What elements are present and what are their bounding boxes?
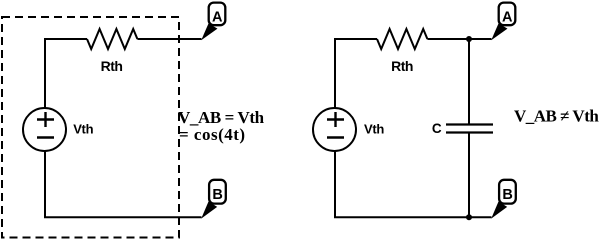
- wire (right circuit, left vertical top): [334, 39, 336, 109]
- svg-text:B: B: [502, 187, 512, 203]
- terminal B (left) wedge: [201, 202, 217, 219]
- resistor Rth (right): [377, 29, 427, 49]
- terminal A (right) wedge: [491, 24, 507, 41]
- terminal A (right) box: [499, 3, 516, 26]
- wire (right circuit, left vertical bottom): [334, 151, 336, 217]
- wire (left circuit, bottom horizontal): [44, 216, 202, 218]
- svg-text:= cos(4t): = cos(4t): [179, 125, 246, 144]
- terminal A (left) box: [209, 3, 226, 26]
- capacitor C: [446, 125, 493, 133]
- node (top junction dot): [466, 36, 472, 42]
- terminal B (right) box: [499, 180, 516, 204]
- voltage source Vth (left): [23, 108, 66, 151]
- terminal A (left) wedge: [201, 24, 217, 41]
- wire (left circuit, top horizontal to resistor): [44, 38, 87, 40]
- resistor Rth (left): [87, 29, 137, 49]
- wire (right circuit, bottom horizontal): [334, 216, 492, 218]
- wire (left circuit, left vertical bottom): [44, 151, 46, 217]
- node (bottom junction dot): [466, 214, 472, 220]
- svg-text:C: C: [432, 121, 442, 136]
- svg-text:B: B: [212, 187, 222, 203]
- wire (right circuit, top horizontal junction to terminal A): [427, 38, 491, 40]
- terminal B (right) wedge: [491, 202, 507, 219]
- wire (left circuit, left vertical top): [44, 39, 46, 109]
- svg-text:Vth: Vth: [364, 122, 384, 137]
- wire (right circuit, top horizontal to resistor): [334, 38, 377, 40]
- wire (capacitor top lead): [468, 39, 470, 124]
- wire (left circuit, top horizontal to terminal A): [137, 38, 201, 40]
- svg-text:Rth: Rth: [391, 58, 413, 74]
- svg-text:V_AB ≠ Vth: V_AB ≠ Vth: [514, 107, 599, 126]
- svg-text:Rth: Rth: [101, 58, 123, 74]
- voltage source Vth (right): [313, 108, 356, 151]
- svg-text:Vth: Vth: [73, 122, 93, 137]
- wire (capacitor bottom lead): [468, 134, 470, 218]
- dashed box (Thevenin equivalent boundary): [2, 17, 179, 238]
- svg-text:A: A: [502, 9, 513, 25]
- terminal B (left) box: [209, 180, 226, 204]
- svg-text:A: A: [212, 9, 223, 25]
